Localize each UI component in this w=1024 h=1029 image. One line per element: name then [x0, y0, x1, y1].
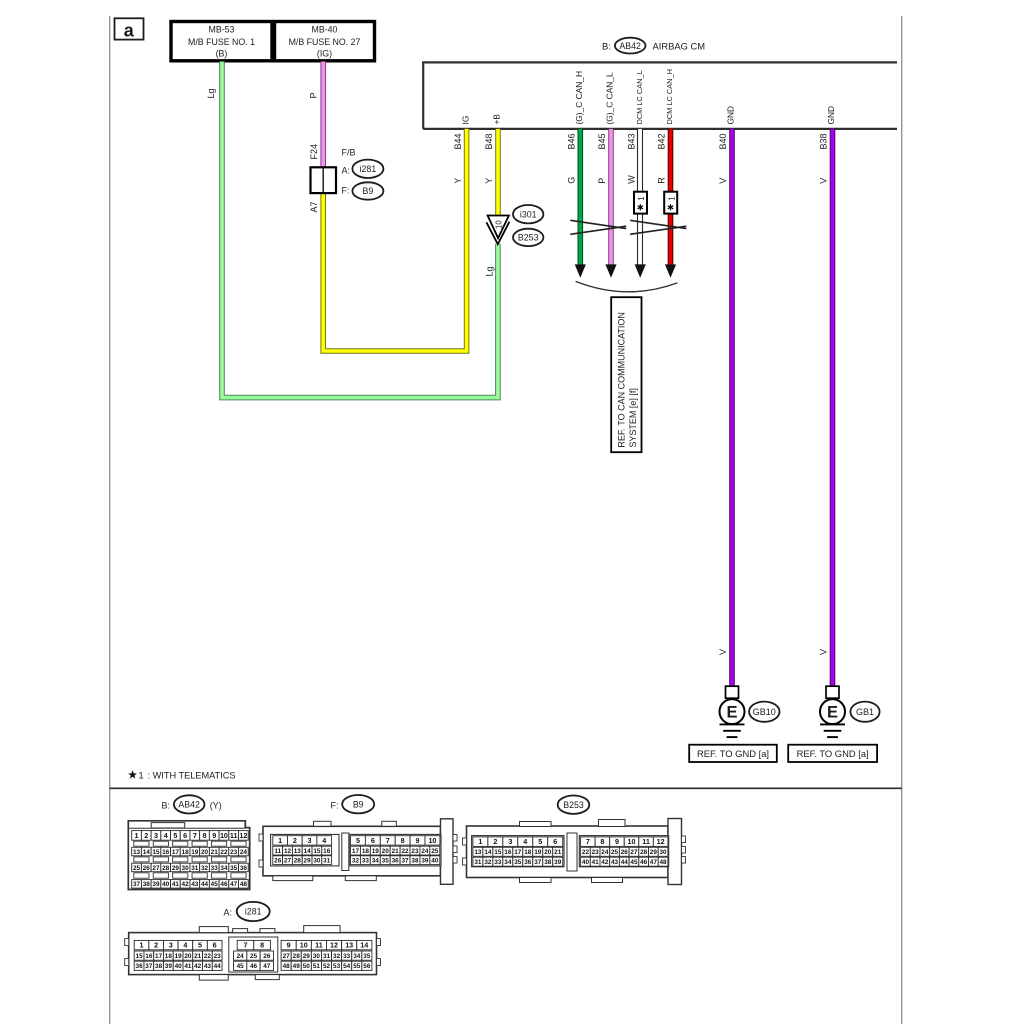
connector view A: i281 body: [125, 926, 381, 981]
svg-text:11: 11: [274, 848, 281, 855]
svg-text:15: 15: [152, 849, 160, 856]
svg-text:21: 21: [194, 953, 202, 960]
svg-text:26: 26: [274, 858, 282, 865]
svg-text:9: 9: [416, 836, 420, 845]
svg-text:9: 9: [212, 831, 216, 840]
svg-text:3: 3: [154, 831, 158, 840]
connector view B253 body: [463, 819, 686, 885]
svg-text:4: 4: [523, 837, 527, 846]
svg-text:13: 13: [345, 941, 353, 950]
svg-text:31: 31: [323, 858, 331, 865]
svg-text:B46: B46: [567, 133, 577, 149]
svg-text:A:: A:: [342, 166, 351, 176]
svg-text:35: 35: [230, 865, 238, 872]
svg-text:37: 37: [402, 858, 410, 865]
svg-text:2: 2: [154, 941, 158, 950]
wire G (pin B46 C CAN_H): [577, 129, 583, 266]
svg-text:32: 32: [352, 858, 360, 865]
svg-text:a: a: [124, 20, 135, 40]
svg-text:34: 34: [353, 953, 361, 960]
svg-text:31: 31: [474, 859, 482, 866]
svg-text:7: 7: [386, 836, 390, 845]
separator line above connector views: [110, 787, 902, 789]
svg-text:MB-53: MB-53: [209, 25, 235, 35]
svg-text:30: 30: [659, 849, 667, 856]
svg-text:6: 6: [213, 941, 217, 950]
svg-text:28: 28: [294, 858, 302, 865]
svg-text:3: 3: [169, 941, 173, 950]
connector pass-through symbol i301/B253 (double triangle, pin 10): [486, 216, 509, 245]
svg-text:27: 27: [630, 849, 638, 856]
svg-text:25: 25: [611, 849, 619, 856]
svg-text:24: 24: [421, 848, 429, 855]
svg-text:36: 36: [392, 858, 400, 865]
svg-text:51: 51: [313, 963, 321, 970]
svg-text:GND: GND: [726, 106, 736, 125]
svg-text:B:: B:: [602, 41, 611, 52]
connector view B: AB42 body: [128, 821, 249, 890]
svg-text:41: 41: [172, 881, 180, 888]
svg-text:40: 40: [431, 858, 439, 865]
svg-text:F24: F24: [309, 144, 319, 160]
svg-text:31: 31: [323, 953, 331, 960]
i281 pins row 3 left (36-44): [134, 961, 144, 970]
B253 pins row 2 left (13-21): [473, 847, 483, 856]
svg-text:F:: F:: [331, 801, 339, 811]
svg-text:10: 10: [428, 836, 436, 845]
wire V (pin B38 GND to GB1): [830, 129, 836, 687]
svg-text:44: 44: [621, 859, 629, 866]
svg-text:i301: i301: [520, 209, 537, 219]
svg-text:41: 41: [184, 963, 192, 970]
svg-text:27: 27: [284, 858, 292, 865]
label i301: [513, 205, 543, 223]
svg-text:18: 18: [524, 849, 532, 856]
svg-text:19: 19: [372, 848, 380, 855]
svg-text:12: 12: [330, 941, 338, 950]
svg-text:F:: F:: [342, 186, 350, 196]
svg-text:25: 25: [250, 953, 258, 960]
svg-text:31: 31: [191, 865, 199, 872]
svg-text:3: 3: [508, 837, 512, 846]
B253 pins row 3 right (40-48): [581, 857, 591, 866]
svg-text:14: 14: [360, 941, 368, 950]
svg-text:12: 12: [239, 831, 247, 840]
svg-text:M/B FUSE NO. 27: M/B FUSE NO. 27: [289, 37, 361, 47]
svg-text:Y: Y: [484, 178, 494, 184]
svg-text:B43: B43: [626, 133, 636, 149]
wire Y from pin B48 to connector i301: [495, 129, 501, 216]
svg-text:5: 5: [198, 941, 202, 950]
svg-text:25: 25: [133, 865, 141, 872]
page border right: [901, 16, 903, 1024]
option flag *1 box on wire at x=670.7: [664, 192, 677, 214]
svg-text:43: 43: [204, 963, 212, 970]
svg-text:V: V: [718, 649, 728, 655]
svg-text:46: 46: [250, 963, 258, 970]
svg-text:26: 26: [263, 953, 271, 960]
arrow head (to CAN system) at x=670.5: [665, 264, 676, 277]
svg-text:54: 54: [343, 963, 351, 970]
svg-text:45: 45: [237, 963, 245, 970]
svg-text:23: 23: [214, 953, 222, 960]
ground symbol GB1: [820, 686, 845, 737]
svg-text:42: 42: [194, 963, 202, 970]
svg-text:(Y): (Y): [210, 801, 222, 811]
svg-text:1: 1: [667, 196, 676, 201]
i281 pins row 2 left (15-23): [134, 951, 144, 960]
wire Lg from MB-53 down, right, and up to connector i301: [222, 62, 498, 398]
svg-text:16: 16: [504, 849, 512, 856]
svg-text:(G)_C CAN_L: (G)_C CAN_L: [605, 72, 615, 124]
svg-text:48: 48: [283, 963, 291, 970]
svg-text:30: 30: [313, 953, 321, 960]
svg-text:Y: Y: [453, 178, 463, 184]
svg-text:35: 35: [363, 953, 371, 960]
svg-text:B253: B253: [563, 800, 584, 810]
svg-text:2: 2: [293, 836, 297, 845]
wire Y from fuse A7 down, right, up to pin B44: [323, 129, 466, 351]
svg-text:DCM LC CAN_L: DCM LC CAN_L: [635, 70, 644, 124]
svg-text:56: 56: [363, 963, 371, 970]
svg-text:32: 32: [333, 953, 341, 960]
svg-text:36: 36: [136, 963, 144, 970]
svg-text:41: 41: [592, 859, 600, 866]
svg-text:20: 20: [201, 849, 209, 856]
svg-text:17: 17: [514, 849, 522, 856]
svg-text:5: 5: [173, 831, 177, 840]
svg-text:4: 4: [164, 831, 168, 840]
connector view title B253: [558, 796, 590, 814]
svg-text:40: 40: [582, 859, 590, 866]
svg-text:50: 50: [303, 963, 311, 970]
svg-text:8: 8: [401, 836, 405, 845]
svg-text:16: 16: [145, 953, 153, 960]
i281 pins row 1 middle (7-8): [237, 940, 254, 949]
svg-text:6: 6: [553, 837, 557, 846]
svg-text:22: 22: [402, 848, 410, 855]
svg-text:17: 17: [352, 848, 360, 855]
ground name label GB10: [749, 702, 779, 722]
svg-text:15: 15: [136, 953, 144, 960]
svg-text:6: 6: [183, 831, 187, 840]
svg-text:32: 32: [201, 865, 209, 872]
svg-text:39: 39: [554, 859, 562, 866]
svg-text:19: 19: [534, 849, 542, 856]
svg-text:37: 37: [534, 859, 542, 866]
svg-text:42: 42: [182, 881, 190, 888]
svg-text:B40: B40: [718, 133, 728, 149]
svg-text:33: 33: [494, 859, 502, 866]
svg-text:M/B FUSE NO. 1: M/B FUSE NO. 1: [188, 37, 255, 47]
svg-text:DCM LC CAN_H: DCM LC CAN_H: [665, 69, 674, 124]
svg-text:F/B: F/B: [342, 148, 356, 158]
svg-text:REF. TO GND [a]: REF. TO GND [a]: [797, 748, 869, 759]
svg-text:7: 7: [244, 941, 248, 950]
B253 pins row 1 left (1-6): [473, 837, 488, 847]
svg-text:B253: B253: [518, 233, 539, 243]
svg-text:48: 48: [659, 859, 667, 866]
svg-text:7: 7: [586, 837, 590, 846]
svg-text:36: 36: [240, 865, 248, 872]
i281 pins row 3 right (48-56): [281, 961, 291, 970]
svg-text:39: 39: [421, 858, 429, 865]
B253 pins row 2 right (22-30): [581, 847, 591, 856]
i281 pins row 1 left (1-6): [134, 940, 149, 949]
svg-text:AB42: AB42: [619, 41, 641, 51]
svg-text:37: 37: [145, 963, 153, 970]
svg-text:32: 32: [484, 859, 492, 866]
svg-text:34: 34: [372, 858, 380, 865]
svg-text:REF. TO GND [a]: REF. TO GND [a]: [697, 748, 769, 759]
svg-text:18: 18: [165, 953, 173, 960]
svg-text:48: 48: [240, 881, 248, 888]
B9 pins row 1 right (5-10): [351, 836, 366, 845]
svg-text:4: 4: [183, 941, 187, 950]
svg-text:23: 23: [230, 849, 238, 856]
svg-text:44: 44: [214, 963, 222, 970]
svg-text:39: 39: [152, 881, 160, 888]
arrow head (to CAN system) at x=611.0: [605, 264, 616, 277]
svg-text:GND: GND: [826, 106, 836, 125]
svg-text:11: 11: [642, 837, 650, 846]
svg-text:21: 21: [211, 849, 219, 856]
svg-text:16: 16: [162, 849, 170, 856]
svg-text:23: 23: [411, 848, 419, 855]
wire P from MB-40 to fuse F24: [320, 62, 326, 169]
B9 pins row 2 right (17-25): [351, 846, 361, 855]
svg-text:10: 10: [300, 941, 308, 950]
svg-text:39: 39: [165, 963, 173, 970]
airbag control module box B: AB42 AIRBAG CM: [423, 38, 897, 129]
svg-text:35: 35: [514, 859, 522, 866]
svg-text:1: 1: [135, 831, 139, 840]
svg-text:G: G: [567, 177, 577, 184]
label A: i281: [342, 160, 384, 178]
svg-text:55: 55: [353, 963, 361, 970]
svg-text:34: 34: [504, 859, 512, 866]
svg-text:9: 9: [615, 837, 619, 846]
svg-text:27: 27: [152, 865, 160, 872]
svg-text:19: 19: [175, 953, 183, 960]
wire R (pin B42 DCM LC CAN_H): [668, 129, 674, 266]
i281 pins row 2 middle (24-26): [234, 951, 247, 960]
svg-text:AB42: AB42: [178, 800, 200, 810]
svg-text:30: 30: [182, 865, 190, 872]
svg-text:IG: IG: [461, 116, 471, 125]
svg-text:45: 45: [630, 859, 638, 866]
i281 pins row 2 right (27-35): [281, 951, 291, 960]
svg-text:43: 43: [191, 881, 199, 888]
svg-text:29: 29: [303, 953, 311, 960]
svg-text:38: 38: [544, 859, 552, 866]
AB42 pins row 2 (13-24): [132, 847, 142, 856]
twisted-pair mark (B46/B45 pair): [570, 220, 626, 234]
svg-text:Lg: Lg: [484, 266, 494, 276]
connector view title B: AB42 (Y): [162, 795, 222, 813]
svg-text:33: 33: [343, 953, 351, 960]
svg-text:3: 3: [308, 836, 312, 845]
svg-text:42: 42: [601, 859, 609, 866]
option flag *1 box on wire at x=640.5: [634, 192, 647, 214]
svg-text:26: 26: [143, 865, 151, 872]
svg-text:1: 1: [478, 837, 482, 846]
svg-text:GB1: GB1: [856, 707, 874, 717]
svg-text:37: 37: [133, 881, 141, 888]
wire P (pin B45 C CAN_L): [608, 129, 614, 266]
svg-text:24: 24: [601, 849, 609, 856]
svg-text:2: 2: [493, 837, 497, 846]
svg-text:8: 8: [203, 831, 207, 840]
note *1 : WITH TELEMATICS: [128, 770, 235, 780]
svg-text:P: P: [597, 178, 607, 184]
svg-text:24: 24: [240, 849, 248, 856]
B9 pins row 3 left (26-31): [273, 856, 283, 865]
svg-text:11: 11: [315, 941, 323, 950]
svg-text:B45: B45: [597, 133, 607, 149]
brace arc under arrows: [576, 281, 678, 291]
svg-text:18: 18: [182, 849, 190, 856]
wire V (pin B40 GND to GB10): [729, 129, 735, 687]
AB42 pins row 1 (1-12): [132, 831, 142, 841]
svg-text:E: E: [726, 704, 737, 722]
svg-text:21: 21: [554, 849, 562, 856]
svg-text:V: V: [718, 178, 728, 184]
svg-text:15: 15: [494, 849, 502, 856]
svg-text:27: 27: [283, 953, 291, 960]
svg-text:15: 15: [313, 848, 321, 855]
ground symbol GB10: [720, 686, 745, 737]
B253 pins row 3 left (31-39): [473, 857, 483, 866]
svg-text:R: R: [657, 177, 667, 184]
svg-text:1: 1: [637, 196, 646, 201]
B9 pins row 1 left (1-4): [273, 836, 288, 845]
svg-text:21: 21: [392, 848, 400, 855]
label B253: [513, 229, 543, 246]
svg-text:9: 9: [287, 941, 291, 950]
AB42 pins row 3 (25-36): [132, 863, 142, 872]
fuse box MB-53: [171, 22, 272, 61]
B9 pins row 2 left (11-16): [273, 846, 283, 855]
svg-text:12: 12: [657, 837, 665, 846]
svg-text:GB10: GB10: [753, 707, 776, 717]
i281 pins row 1 right (9-14): [281, 940, 296, 949]
svg-text:AIRBAG CM: AIRBAG CM: [653, 41, 706, 52]
svg-text:2: 2: [144, 831, 148, 840]
svg-text:23: 23: [592, 849, 600, 856]
svg-text:(G)_C CAN_H: (G)_C CAN_H: [574, 71, 584, 125]
svg-text:28: 28: [640, 849, 648, 856]
svg-text:A7: A7: [309, 201, 319, 212]
svg-text:33: 33: [211, 865, 219, 872]
svg-text:28: 28: [162, 865, 170, 872]
svg-text:25: 25: [431, 848, 439, 855]
svg-text:35: 35: [382, 858, 390, 865]
reference box REF. TO CAN COMMUNICATION SYSTEM [e] [f]: [611, 297, 641, 452]
svg-text:34: 34: [220, 865, 228, 872]
svg-text:+B: +B: [492, 114, 502, 125]
svg-text:10: 10: [628, 837, 636, 846]
B253 pins row 1 right (7-12): [581, 837, 596, 847]
svg-text:E: E: [827, 704, 838, 722]
svg-text:8: 8: [260, 941, 264, 950]
svg-text:(B): (B): [216, 49, 228, 59]
ground name label GB1: [850, 702, 879, 722]
arrow head (to CAN system) at x=580.3: [575, 264, 586, 277]
svg-text:13: 13: [133, 849, 141, 856]
svg-text:22: 22: [582, 849, 590, 856]
svg-text:B:: B:: [162, 801, 171, 811]
svg-text:46: 46: [220, 881, 228, 888]
svg-text:V: V: [819, 649, 829, 655]
svg-text:29: 29: [650, 849, 658, 856]
section label a: [115, 18, 144, 40]
svg-text:28: 28: [293, 953, 301, 960]
svg-text:49: 49: [293, 963, 301, 970]
svg-text:i281: i281: [360, 164, 377, 174]
svg-text:B42: B42: [657, 133, 667, 149]
i281 pins row 3 middle (45-47): [234, 961, 247, 970]
svg-text:1: 1: [139, 771, 144, 781]
reference box REF. TO GND [a] (GB10): [689, 745, 777, 762]
svg-text:24: 24: [237, 953, 245, 960]
svg-text:4: 4: [322, 836, 326, 845]
svg-text:5: 5: [538, 837, 542, 846]
svg-text:13: 13: [474, 849, 482, 856]
svg-text:46: 46: [640, 859, 648, 866]
svg-text:20: 20: [544, 849, 552, 856]
svg-text:47: 47: [230, 881, 238, 888]
svg-text:1: 1: [278, 836, 282, 845]
wire W (pin B43 DCM LC CAN_L): [638, 129, 643, 266]
svg-text:17: 17: [155, 953, 163, 960]
svg-text:18: 18: [362, 848, 370, 855]
svg-text:47: 47: [263, 963, 271, 970]
svg-text:40: 40: [175, 963, 183, 970]
svg-text:20: 20: [382, 848, 390, 855]
svg-text:MB-40: MB-40: [312, 25, 338, 35]
svg-text:10: 10: [220, 831, 228, 840]
svg-text:i281: i281: [245, 907, 262, 917]
svg-text:8: 8: [600, 837, 604, 846]
svg-text:47: 47: [650, 859, 658, 866]
svg-text:B9: B9: [353, 799, 364, 809]
svg-text:REF. TO CAN COMMUNICATION: REF. TO CAN COMMUNICATION: [617, 312, 627, 448]
svg-text:22: 22: [204, 953, 212, 960]
svg-text:19: 19: [191, 849, 199, 856]
svg-text:10: 10: [495, 220, 504, 229]
arrow head (to CAN system) at x=640.2: [635, 264, 646, 277]
svg-text:38: 38: [411, 858, 419, 865]
page border left: [109, 16, 111, 1024]
svg-text:17: 17: [172, 849, 180, 856]
svg-text:22: 22: [220, 849, 228, 856]
reference box REF. TO GND [a] (GB1): [788, 745, 877, 762]
svg-text:14: 14: [143, 849, 151, 856]
AB42 pins row 4 (37-48): [132, 880, 142, 889]
svg-text:(IG): (IG): [317, 49, 332, 59]
svg-text:30: 30: [313, 858, 321, 865]
svg-text:: WITH TELEMATICS: : WITH TELEMATICS: [148, 771, 236, 781]
svg-text:36: 36: [524, 859, 532, 866]
svg-text:12: 12: [284, 848, 292, 855]
svg-text:7: 7: [193, 831, 197, 840]
svg-text:Lg: Lg: [206, 88, 216, 98]
svg-text:11: 11: [230, 831, 238, 840]
svg-text:29: 29: [304, 858, 312, 865]
svg-text:V: V: [819, 178, 829, 184]
svg-text:13: 13: [294, 848, 302, 855]
